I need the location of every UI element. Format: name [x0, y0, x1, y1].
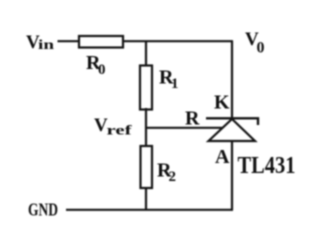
svg-text:2: 2 [169, 169, 177, 185]
svg-text:in: in [38, 38, 54, 53]
wire Vref node down to R2 [145, 128, 147, 146]
wire anode drop to ground rail [231, 141, 233, 210]
svg-text:ref: ref [107, 124, 132, 139]
wire Vin lead [58, 40, 79, 42]
resistor R1 [140, 66, 152, 110]
TL431 cathode bar with right hook [206, 118, 258, 125]
resistor R2 [141, 146, 153, 188]
svg-text:0: 0 [98, 62, 106, 78]
wire R1 branch from top rail [145, 41, 147, 65]
svg-text:R: R [185, 108, 200, 130]
wire R1 bottom to Vref node [145, 108, 147, 128]
svg-text:A: A [215, 146, 230, 168]
TL431 triangle body [209, 119, 256, 141]
wire R2 bottom to ground rail [145, 188, 147, 210]
svg-text:1: 1 [171, 76, 179, 92]
wire reference line R to TL431 [146, 127, 222, 129]
wire top rail R0 to V0 corner [123, 40, 233, 42]
wire cathode drop from V0 corner [231, 41, 233, 119]
svg-text:GND: GND [28, 200, 58, 220]
resistor R0 [79, 36, 123, 48]
svg-text:K: K [214, 92, 230, 114]
wire ground rail [66, 209, 233, 211]
svg-text:0: 0 [257, 40, 265, 57]
svg-text:TL431: TL431 [238, 153, 296, 179]
